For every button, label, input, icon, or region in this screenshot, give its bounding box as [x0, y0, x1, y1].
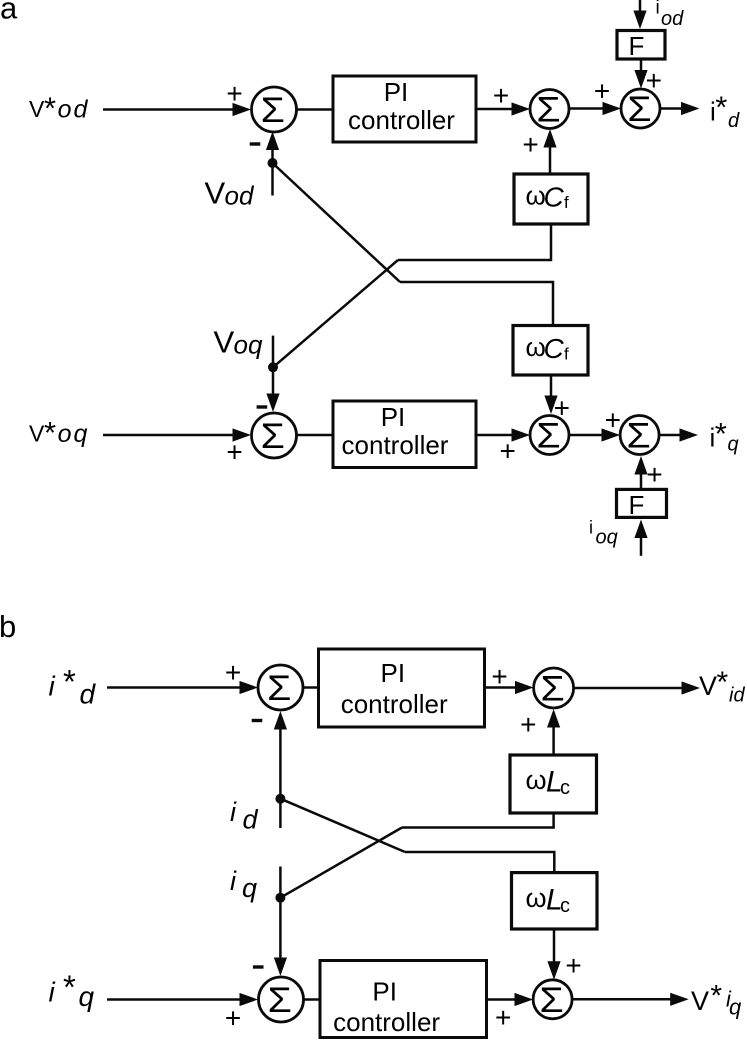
svg-text:*: *	[715, 416, 727, 451]
summer U8 (sigma)	[534, 668, 574, 708]
svg-text:od: od	[661, 8, 684, 30]
wire summer U8 to output V*id	[574, 681, 700, 694]
svg-text:Σ: Σ	[626, 416, 650, 456]
wire summer U5 to summer U6	[569, 428, 620, 441]
wire wLc top block bottom to upper cross horizontal	[402, 813, 554, 828]
node id label	[230, 797, 259, 834]
svg-text:i: i	[230, 797, 237, 827]
node V*oq input label	[29, 415, 89, 450]
node V*iq output label	[691, 980, 742, 1020]
svg-text:Σ: Σ	[539, 980, 563, 1020]
wire wLc bottom block to summer U11	[547, 929, 560, 980]
node i*d input label	[49, 663, 97, 710]
wire F bottom block to summer U6	[634, 456, 647, 489]
svg-text:V: V	[691, 986, 709, 1016]
svg-text:Σ: Σ	[536, 416, 560, 456]
svg-text:q: q	[729, 994, 742, 1019]
svg-text:Σ: Σ	[261, 90, 285, 130]
svg-text:+: +	[226, 437, 242, 468]
summer U4 (sigma)	[252, 413, 297, 458]
gain block wCf (bottom)	[513, 326, 588, 376]
svg-text:b: b	[0, 609, 16, 644]
wire diagonal from iq dot to upper horizontal	[280, 828, 402, 898]
svg-text:+: +	[646, 65, 662, 96]
svg-text:od: od	[225, 181, 255, 211]
wire lower horizontal to wCf (bottom)	[400, 282, 553, 326]
summer U7 (sigma)	[258, 665, 303, 710]
node Vod junction dot	[268, 158, 278, 168]
svg-text:+: +	[522, 129, 538, 160]
node Vod stub wire with up arrow into summer U1	[266, 132, 279, 196]
svg-text:c: c	[560, 777, 570, 799]
svg-text:controller: controller	[348, 105, 455, 135]
node Vod label	[205, 176, 255, 211]
svg-text:+: +	[226, 78, 242, 109]
wire summer U7 to PI box B1	[303, 686, 319, 689]
svg-text:Σ: Σ	[268, 980, 292, 1020]
svg-text:+: +	[495, 1002, 511, 1033]
summer U3 (sigma)	[621, 89, 660, 129]
svg-text:F: F	[629, 490, 645, 520]
svg-text:id: id	[729, 684, 745, 706]
node iq label	[230, 866, 257, 903]
svg-text:q: q	[242, 873, 257, 903]
PI controller block A2	[333, 401, 476, 468]
gain block F (top)	[617, 31, 665, 62]
svg-text:PI: PI	[381, 402, 406, 432]
svg-text:od: od	[58, 96, 90, 124]
node iod label	[656, 0, 685, 30]
svg-text:f: f	[564, 193, 569, 212]
svg-text:d: d	[80, 678, 97, 709]
svg-text:controller: controller	[342, 430, 449, 460]
wire summer U1 to PI box A1	[297, 108, 334, 111]
node ioq label	[589, 518, 618, 549]
wire wCf top to summer U2	[543, 129, 556, 174]
node V*od input label	[29, 90, 89, 125]
svg-text:a: a	[0, 0, 18, 26]
svg-text:oq: oq	[58, 420, 90, 448]
svg-text:V: V	[699, 671, 717, 701]
wire PI box B1 to summer U8	[485, 681, 534, 694]
minus sign at summer U7 bottom input	[252, 719, 263, 722]
svg-text:+: +	[605, 405, 621, 436]
svg-text:i: i	[589, 518, 593, 538]
svg-text:F: F	[629, 31, 645, 61]
wire diagonal from Vod dot to lower horizontal	[273, 163, 401, 282]
wire PI box B2 to summer U11	[487, 993, 534, 1006]
minus sign at summer U1 bottom input	[250, 142, 261, 145]
svg-text:+: +	[565, 950, 581, 981]
gain block wLc (bottom)	[512, 873, 598, 929]
minus sign at summer U10 top input	[253, 965, 264, 968]
svg-text:C: C	[544, 182, 565, 213]
node iq junction dot	[275, 893, 285, 903]
wire wLc top block to summer U8	[547, 709, 560, 755]
svg-text:Σ: Σ	[261, 416, 285, 456]
svg-text:V: V	[29, 421, 45, 447]
wire id stub with up arrow into summer U7	[274, 711, 287, 828]
summer U10 (sigma)	[259, 977, 304, 1022]
svg-text:ω: ω	[526, 883, 547, 913]
svg-text:+: +	[225, 657, 241, 688]
wire summer U6 to output i*q	[659, 428, 698, 441]
wire summer U4 to PI box A2	[297, 434, 334, 437]
svg-text:f: f	[564, 345, 569, 364]
summer U1 (sigma)	[252, 87, 297, 132]
PI controller block B1	[319, 649, 485, 727]
summer U5 (sigma)	[530, 416, 569, 456]
wire summer U3 to output i*d	[660, 102, 700, 115]
node V*id output label	[699, 666, 745, 706]
svg-text:*: *	[710, 980, 722, 1013]
svg-text:i: i	[230, 866, 237, 896]
PI controller block B2	[320, 961, 487, 1038]
svg-text:controller: controller	[333, 1007, 440, 1037]
wire summer U2 to summer U3	[569, 102, 621, 115]
wire diagonal from id dot to lower horizontal	[280, 799, 405, 852]
svg-text:i: i	[656, 0, 660, 19]
wire V*od to summer U1	[103, 103, 251, 116]
gain block wCf (top)	[514, 174, 588, 224]
wire iq stub with down arrow into summer U10	[274, 867, 287, 977]
svg-text:Σ: Σ	[267, 668, 291, 708]
wire summer U11 to output V*iq	[572, 993, 689, 1006]
wire wCf bottom block to summer U5	[544, 375, 557, 414]
node Voq stub wire with down arrow into summer U4	[266, 336, 279, 412]
svg-text:*: *	[44, 415, 56, 450]
wire ioq input into F bottom block	[634, 520, 647, 556]
svg-text:V: V	[205, 176, 226, 211]
svg-text:PI: PI	[372, 976, 397, 1006]
svg-text:+: +	[646, 459, 662, 490]
svg-text:d: d	[243, 805, 259, 835]
wire PI box A2 to summer U5	[476, 428, 530, 441]
svg-text:*: *	[44, 90, 56, 125]
wire wCf bottom to cross junction (upper horizontal)	[398, 224, 551, 260]
svg-text:V: V	[29, 96, 45, 122]
svg-text:+: +	[493, 80, 509, 111]
svg-text:V: V	[214, 325, 235, 360]
svg-text:+: +	[225, 1003, 241, 1034]
summer U11 (sigma)	[533, 980, 572, 1020]
node i*q output label	[710, 416, 739, 456]
wire diagonal from Voq dot to upper horizontal	[273, 260, 398, 367]
gain block F (bottom)	[617, 489, 667, 520]
wire summer U10 to PI box B2	[304, 998, 321, 1001]
PI controller block A1	[333, 76, 476, 142]
svg-text:controller: controller	[341, 689, 448, 719]
svg-text:Σ: Σ	[540, 669, 564, 709]
svg-text:c: c	[560, 895, 570, 917]
wire i*d to summer U7	[107, 681, 258, 694]
node i*q input label	[49, 969, 95, 1012]
svg-text:ω: ω	[526, 765, 547, 795]
wire PI box A1 to summer U2	[476, 102, 530, 115]
wire iod input into F block	[633, 0, 646, 29]
svg-text:*: *	[63, 969, 76, 1006]
wire lower horizontal to wLc (bottom)	[405, 852, 554, 873]
summer U2 (sigma)	[530, 90, 569, 130]
svg-text:i: i	[49, 977, 56, 1008]
wire i*q to summer U10	[107, 993, 258, 1006]
svg-text:+: +	[594, 76, 610, 107]
node Voq junction dot	[268, 362, 278, 372]
node i*d output label	[710, 90, 740, 133]
svg-text:PI: PI	[384, 77, 409, 107]
wire F block to summer U3	[634, 59, 647, 89]
node Voq label	[214, 325, 263, 360]
svg-text:Σ: Σ	[536, 90, 560, 130]
svg-text:*: *	[717, 666, 729, 699]
svg-text:*: *	[63, 663, 76, 700]
svg-text:+: +	[520, 709, 536, 740]
svg-text:q: q	[728, 434, 739, 456]
svg-text:*: *	[715, 90, 727, 125]
svg-text:i: i	[49, 670, 56, 701]
gain block wLc (top)	[510, 755, 597, 813]
svg-text:oq: oq	[234, 330, 263, 360]
summer U6 (sigma)	[620, 416, 659, 456]
svg-text:oq: oq	[596, 527, 618, 549]
svg-text:q: q	[79, 981, 95, 1012]
svg-text:PI: PI	[381, 658, 406, 688]
minus sign at summer U4 top input	[257, 405, 268, 408]
svg-text:+: +	[491, 661, 507, 692]
wire V*oq to summer U4	[103, 428, 251, 441]
svg-text:d: d	[728, 110, 740, 132]
node id junction dot	[275, 794, 285, 804]
svg-text:C: C	[544, 333, 565, 364]
